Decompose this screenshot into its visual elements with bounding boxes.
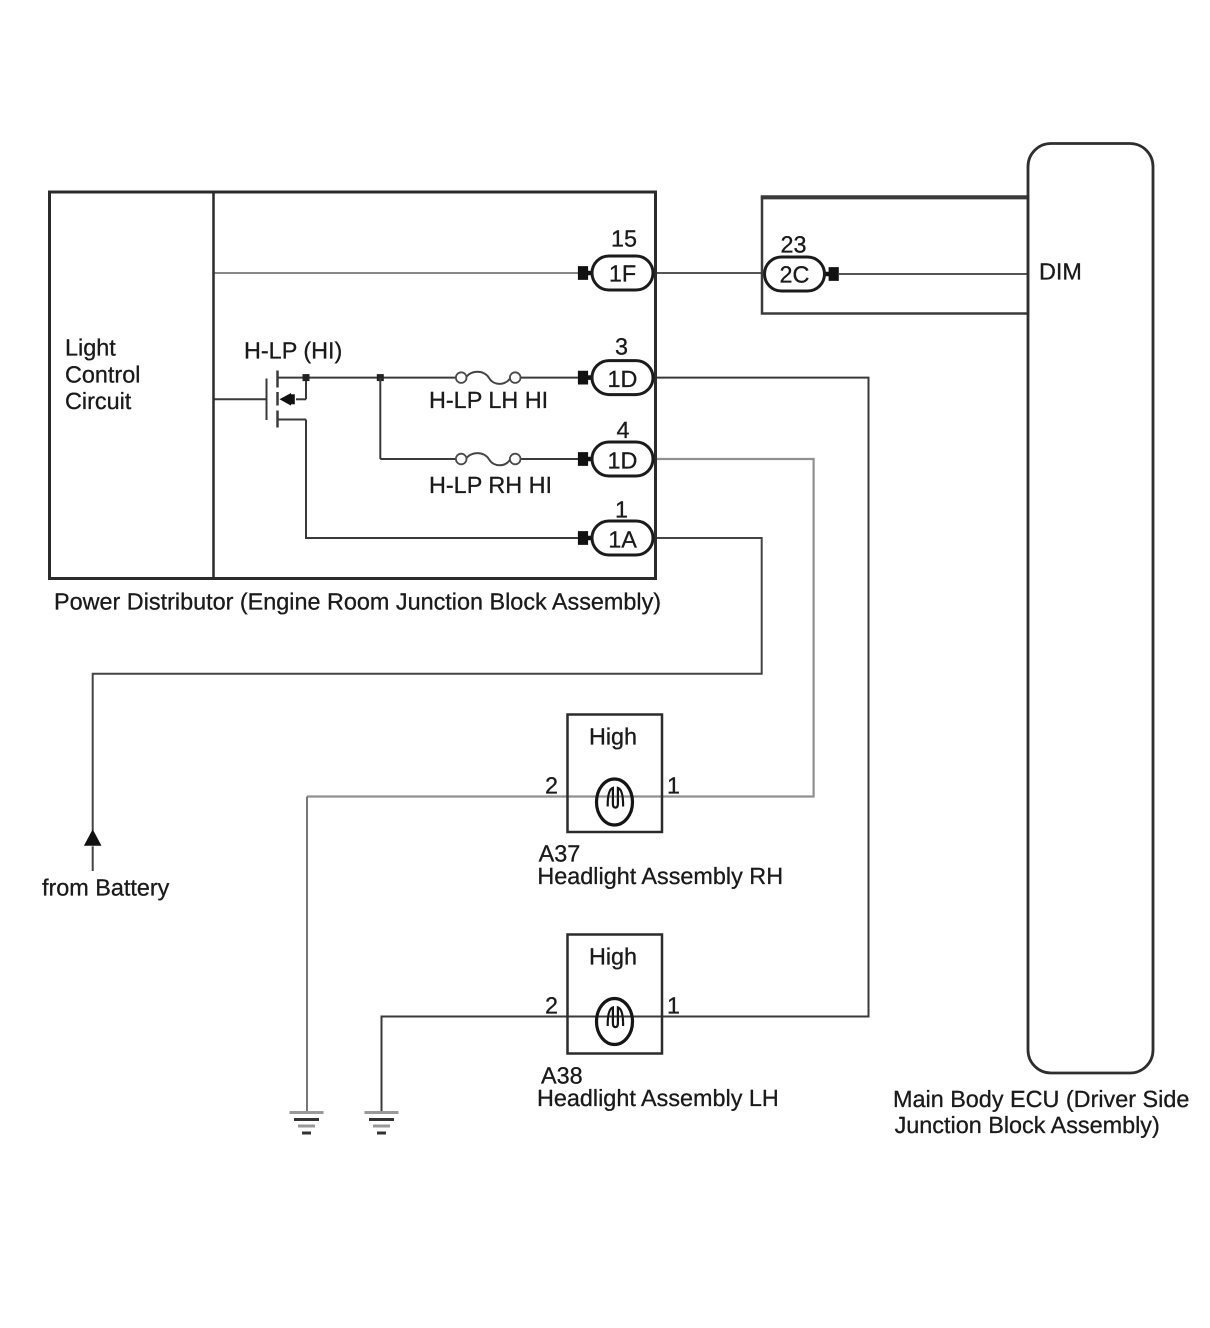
A38 headlight box — [568, 935, 663, 1054]
wire 1A to from-Battery — [93, 538, 762, 831]
ground symbol A38 circuit — [365, 1111, 399, 1135]
transistor Q1 H-LP (HI) — [267, 371, 307, 428]
wire from light control circuit to 1F — [214, 272, 578, 274]
svg-text:Circuit: Circuit — [65, 388, 132, 414]
wire branch down to RH fuse row — [379, 378, 381, 459]
connector oval 1F — [592, 256, 653, 290]
svg-text:Light: Light — [65, 335, 116, 361]
svg-text:15: 15 — [611, 226, 637, 252]
connector arrow 1A — [578, 531, 593, 545]
2C box — [762, 197, 1028, 314]
svg-text:Main Body ECU (Driver Side: Main Body ECU (Driver Side — [893, 1086, 1189, 1112]
svg-text:H-LP RH HI: H-LP RH HI — [429, 472, 552, 498]
svg-text:Power Distributor (Engine Room: Power Distributor (Engine Room Junction … — [54, 589, 661, 615]
svg-text:Junction Block Assembly): Junction Block Assembly) — [895, 1112, 1160, 1138]
fuse H-LP RH HI — [456, 453, 521, 465]
svg-text:DIM: DIM — [1039, 259, 1082, 285]
transistor body arrow — [280, 393, 292, 406]
svg-text:High: High — [589, 944, 637, 970]
svg-text:1D: 1D — [608, 448, 638, 474]
connector arrow 1D pin3 — [578, 371, 593, 385]
wire gate of transistor — [214, 398, 267, 400]
connector oval 1A — [592, 521, 653, 555]
wire 1D pin4 to A37 pin 1 — [652, 459, 814, 797]
bulb A37 — [597, 779, 633, 825]
svg-text:High: High — [589, 724, 637, 750]
wire to fuse H-LP RH HI — [380, 458, 456, 460]
connector oval 2C — [765, 257, 825, 291]
wire source down to 1A — [306, 420, 578, 539]
A37 headlight box — [568, 715, 663, 833]
Light Control Circuit divider — [212, 192, 215, 579]
Power Distributor box — [50, 192, 656, 579]
svg-text:1A: 1A — [608, 527, 637, 553]
wire 1F to 2C box — [652, 272, 762, 274]
connector oval 1D pin3 — [592, 361, 653, 395]
svg-text:1: 1 — [615, 497, 628, 523]
svg-text:2: 2 — [545, 773, 558, 799]
svg-text:Headlight Assembly LH: Headlight Assembly LH — [537, 1085, 779, 1111]
svg-text:1: 1 — [667, 773, 680, 799]
bulb A38 — [597, 999, 633, 1045]
wire fuse to 1D pin3 arrow — [521, 377, 578, 379]
from Battery stub — [92, 846, 94, 871]
svg-text:1D: 1D — [608, 366, 638, 392]
svg-text:from Battery: from Battery — [42, 874, 170, 900]
svg-text:2: 2 — [545, 993, 558, 1019]
svg-text:1F: 1F — [609, 260, 636, 286]
connector oval 1D pin4 — [592, 442, 653, 476]
wire inside A37 through bulb — [568, 795, 663, 797]
wire drain to fuse H-LP LH HI — [306, 377, 456, 379]
connector arrow 2C — [824, 267, 839, 281]
junction node branch to RH fuse — [377, 374, 384, 381]
svg-text:4: 4 — [616, 417, 629, 443]
connector arrow 1D pin4 — [578, 452, 593, 466]
Main Body ECU box — [1028, 144, 1153, 1074]
svg-text:2C: 2C — [780, 261, 810, 287]
fuse H-LP LH HI — [456, 372, 521, 384]
from Battery arrow — [84, 829, 102, 846]
ground symbol A37 circuit — [290, 1111, 324, 1135]
junction node at drain — [303, 374, 310, 381]
svg-text:H-LP (HI): H-LP (HI) — [244, 338, 342, 364]
wire fuse RH to 1D pin4 arrow — [521, 458, 578, 460]
2C box top edge — [761, 196, 1029, 199]
wire A37 ground drop — [306, 797, 308, 1113]
svg-text:1: 1 — [667, 993, 680, 1019]
connector arrow 1F — [578, 266, 593, 280]
wire A38 pin 2 to ground — [382, 1017, 568, 1113]
svg-text:H-LP LH HI: H-LP LH HI — [429, 387, 548, 413]
wire 1D pin3 to A38 pin 1 — [652, 378, 869, 1017]
wire DIM to 2C arrow — [839, 273, 1028, 275]
svg-text:Headlight Assembly RH: Headlight Assembly RH — [537, 863, 783, 889]
svg-text:23: 23 — [780, 231, 806, 257]
wire inside A38 through bulb — [568, 1016, 663, 1018]
svg-text:3: 3 — [615, 334, 628, 360]
wire A37 pin 2 left — [307, 795, 568, 797]
svg-text:Control: Control — [65, 361, 140, 387]
